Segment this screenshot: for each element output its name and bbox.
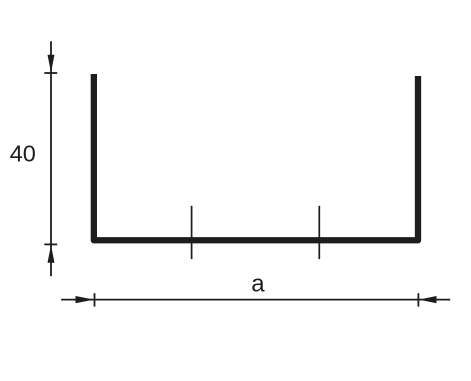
arrowhead down (top) [48,55,55,73]
top extension tick [44,72,57,74]
vertical dimension line (40) [50,41,52,276]
bend tick mark right [318,206,320,259]
svg-text:a: a [251,271,265,298]
horizontal dimension line (a) [61,299,450,301]
channel profile (U-section) [94,74,418,240]
svg-text:40: 40 [10,140,36,166]
arrowhead right (left end) [76,296,95,303]
right extension tick [417,293,419,306]
arrowhead left (right end) [419,296,437,303]
bottom extension tick [44,243,57,245]
arrowhead up (bottom) [48,245,55,263]
bend tick mark left [191,206,193,259]
left extension tick [94,293,96,306]
